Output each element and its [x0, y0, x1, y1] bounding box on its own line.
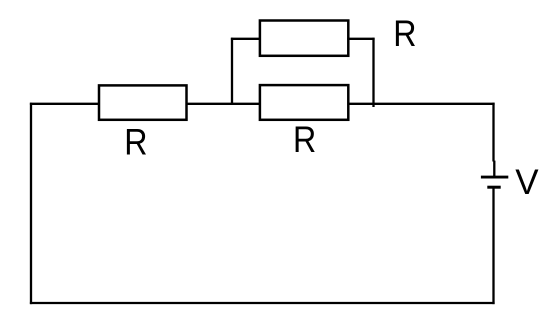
battery V long plate (positive): [481, 176, 508, 179]
wire: battery top lead stub: [493, 161, 495, 177]
svg-text:V: V: [515, 163, 539, 202]
battery V short plate (negative): [487, 186, 500, 189]
wire: right parallel jumper vertical at node B: [372, 38, 374, 107]
svg-text:R: R: [124, 122, 147, 163]
resistor R3 (parallel, bottom box): [260, 85, 348, 120]
wire: resistor R1 to node A (parallel branch left junction): [186, 103, 261, 105]
wire top left: corner to resistor R1: [30, 103, 100, 105]
resistor R2 (parallel, top box): [260, 21, 348, 56]
wire: top connector from jumper to resistor R2 left: [231, 38, 261, 40]
wire bottom of loop: [30, 302, 495, 304]
resistor R1 (series, left box): [99, 85, 187, 119]
wire right side upper: corner down to battery: [492, 103, 494, 162]
wire: node B (parallel branch right junction) to top-right corner: [348, 103, 495, 105]
wire: top connector from resistor R2 right to jumper: [347, 38, 374, 40]
wire left side of loop: [30, 103, 32, 304]
wire right side lower: battery to bottom corner: [492, 188, 494, 304]
svg-text:R: R: [393, 14, 416, 55]
wire: left parallel jumper vertical at node A: [231, 38, 233, 105]
svg-text:R: R: [293, 120, 316, 161]
